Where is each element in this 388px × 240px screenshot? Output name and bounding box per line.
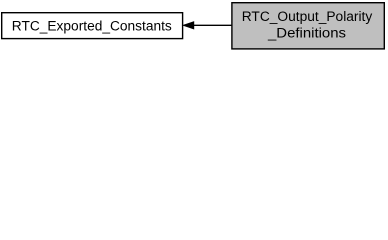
edge wire xyxy=(194,24,232,26)
svg-text:_Definitions: _Definitions xyxy=(267,26,346,41)
background xyxy=(0,0,388,52)
svg-text:RTC_Output_Polarity: RTC_Output_Polarity xyxy=(242,9,373,24)
node RTC_Output_Polarity_Definitions (box, current node grey) xyxy=(232,3,384,49)
node RTC_Exported_Constants (box) xyxy=(2,13,183,39)
svg-text:RTC_Exported_Constants: RTC_Exported_Constants xyxy=(12,18,172,33)
edge arrowhead xyxy=(183,22,193,29)
